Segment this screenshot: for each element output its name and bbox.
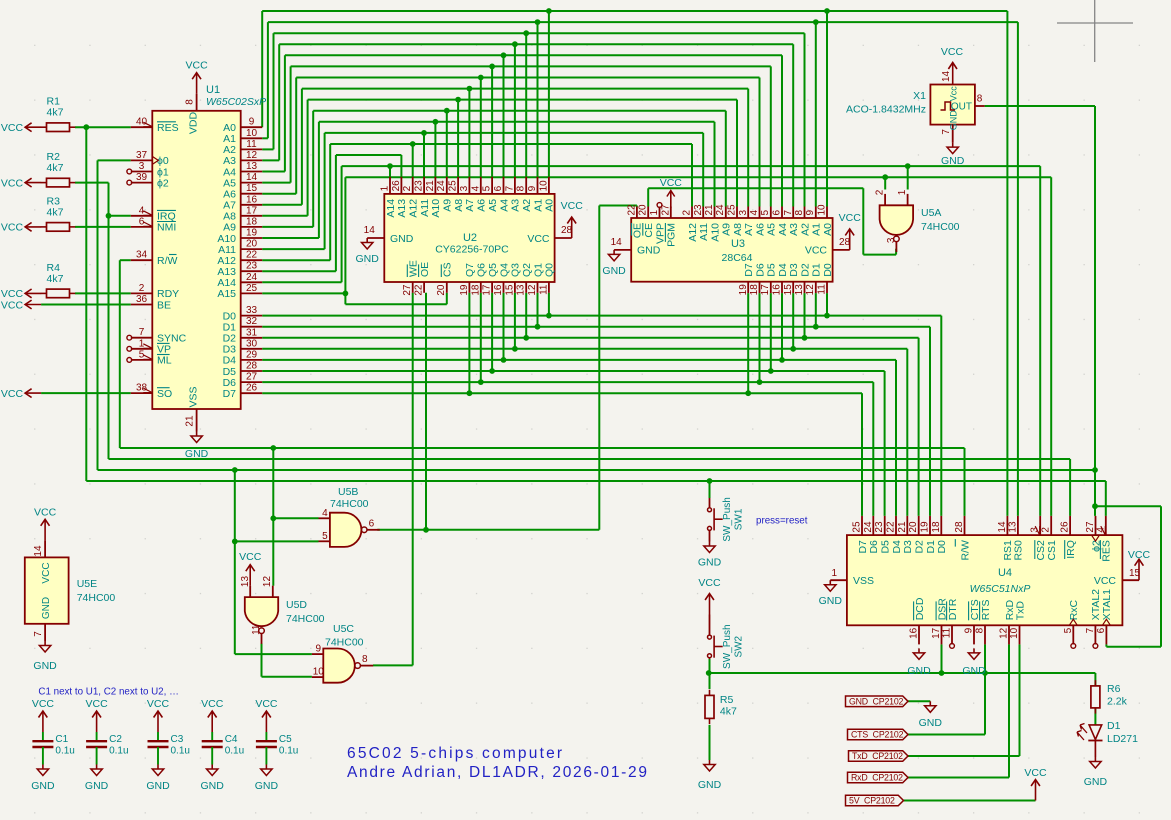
svg-text:VCC: VCC [1,222,24,234]
svg-text:GND: GND [33,660,57,672]
svg-text:4k7: 4k7 [47,206,64,218]
svg-text:GND: GND [962,665,986,677]
svg-text:Q3: Q3 [510,263,522,277]
svg-text:VCC: VCC [41,562,52,583]
svg-text:GND: GND [907,665,931,677]
svg-text:11: 11 [942,627,953,638]
svg-text:A13: A13 [396,199,408,218]
svg-text:GND: GND [919,717,943,729]
svg-text:NMI: NMI [157,222,176,234]
svg-text:22: 22 [626,204,637,216]
svg-text:GND: GND [255,780,279,792]
svg-text:20: 20 [908,521,919,533]
svg-text:press=reset: press=reset [756,516,808,527]
svg-text:33: 33 [246,305,258,316]
svg-text:17: 17 [482,284,493,296]
svg-text:9: 9 [249,117,255,128]
svg-text:8: 8 [516,185,527,191]
svg-text:VCC: VCC [1094,575,1117,587]
svg-text:23: 23 [414,180,425,192]
svg-text:ϕ2: ϕ2 [157,177,169,189]
svg-text:7: 7 [1085,627,1096,633]
svg-text:8: 8 [794,210,805,216]
svg-text:6: 6 [493,185,504,191]
svg-text:8: 8 [975,627,986,633]
svg-text:A5: A5 [487,199,499,212]
svg-text:4: 4 [470,185,481,191]
svg-text:D6: D6 [754,263,766,277]
svg-text:3: 3 [459,185,470,191]
svg-text:A12: A12 [687,223,699,242]
svg-text:29: 29 [246,349,258,360]
svg-text:CY62256-70PC: CY62256-70PC [435,244,509,256]
svg-text:11: 11 [538,284,549,295]
svg-text:17: 17 [246,205,258,216]
svg-text:0.1u: 0.1u [225,746,244,757]
svg-text:C2: C2 [109,734,122,745]
svg-text:VCC: VCC [1,177,24,189]
svg-text:D0: D0 [822,263,834,277]
svg-text:A12: A12 [408,199,420,218]
svg-text:U5B: U5B [338,486,358,498]
svg-text:2: 2 [1041,527,1052,533]
svg-text:12: 12 [246,150,258,161]
svg-text:D2: D2 [799,263,811,277]
svg-text:A7: A7 [743,223,755,236]
svg-text:GND: GND [637,245,661,257]
svg-text:19: 19 [246,228,258,239]
svg-text:Q6: Q6 [476,263,488,277]
svg-text:A8: A8 [732,223,744,236]
svg-text:2: 2 [875,189,886,195]
svg-text:13: 13 [246,161,258,172]
svg-text:10: 10 [817,204,828,216]
svg-text:1: 1 [831,568,837,579]
svg-text:4: 4 [322,508,328,519]
svg-text:RES: RES [1101,540,1113,562]
svg-text:A0: A0 [822,223,834,236]
svg-text:4: 4 [749,210,760,216]
svg-text:20: 20 [436,284,447,296]
svg-text:GND: GND [602,265,626,277]
svg-text:ACO-1.8432MHz: ACO-1.8432MHz [846,104,926,116]
svg-text:C1: C1 [55,734,68,745]
svg-text:Q4: Q4 [498,263,510,277]
svg-text:28C64: 28C64 [722,252,753,264]
svg-text:DTR: DTR [947,598,959,620]
svg-text:D1: D1 [925,540,937,554]
svg-text:U2: U2 [463,232,477,244]
svg-text:3: 3 [1030,527,1041,533]
svg-text:SW_Push: SW_Push [722,624,733,668]
svg-text:19: 19 [738,284,749,296]
svg-text:RxD_CP2102: RxD_CP2102 [851,773,903,783]
svg-text:VSS: VSS [188,386,200,407]
svg-text:VCC: VCC [527,233,550,245]
svg-text:A15: A15 [217,288,236,300]
svg-text:X1: X1 [913,90,926,102]
svg-text:SO: SO [157,388,172,400]
svg-text:31: 31 [246,327,258,338]
svg-text:U1: U1 [206,84,220,96]
svg-text:16: 16 [493,284,504,296]
svg-text:U3: U3 [731,238,745,250]
svg-text:1: 1 [649,210,660,216]
svg-text:14: 14 [364,225,376,236]
svg-text:VDD: VDD [188,111,200,134]
svg-text:VCC: VCC [239,551,262,563]
svg-text:4k7: 4k7 [47,273,64,285]
svg-text:13: 13 [794,284,805,296]
svg-text:18: 18 [246,216,258,227]
svg-text:18: 18 [749,284,760,296]
svg-text:A0: A0 [544,199,556,212]
svg-text:24: 24 [715,204,726,216]
svg-text:D1: D1 [1107,720,1121,732]
svg-text:A11: A11 [419,199,431,217]
svg-text:VCC: VCC [34,506,57,518]
svg-text:XTAL1: XTAL1 [1101,589,1113,620]
svg-text:D5: D5 [880,540,892,554]
svg-text:VCC: VCC [1,122,24,134]
svg-text:TxD_CP2102: TxD_CP2102 [852,751,903,761]
svg-text:16: 16 [246,194,258,205]
svg-text:6: 6 [1096,627,1107,633]
svg-text:GND: GND [41,597,52,619]
svg-text:VCC: VCC [941,46,964,58]
svg-text:14: 14 [246,172,258,183]
svg-text:Q5: Q5 [487,263,499,277]
svg-text:3: 3 [139,161,145,172]
svg-text:Vcc: Vcc [948,86,958,102]
svg-text:27: 27 [246,372,258,383]
svg-text:9: 9 [527,185,538,191]
svg-text:11: 11 [817,284,828,295]
svg-text:14: 14 [33,545,44,557]
svg-text:74HC00: 74HC00 [325,637,364,649]
svg-text:GND: GND [85,780,109,792]
svg-text:26: 26 [391,180,402,192]
svg-text:VCC: VCC [255,698,278,710]
svg-text:D4: D4 [777,263,789,277]
svg-text:SW1: SW1 [734,508,745,530]
svg-text:CE: CE [643,223,655,238]
svg-text:D7: D7 [857,540,869,554]
svg-text:26: 26 [1060,521,1071,533]
svg-text:A2: A2 [521,199,533,212]
svg-text:27: 27 [402,284,413,296]
svg-text:Q0: Q0 [544,263,556,277]
svg-text:22: 22 [246,250,258,261]
svg-text:D5: D5 [766,263,778,277]
svg-text:32: 32 [246,316,258,327]
svg-text:12: 12 [262,576,273,588]
svg-text:38: 38 [136,383,148,394]
svg-text:9: 9 [805,210,816,216]
svg-text:U4: U4 [998,567,1012,579]
svg-text:3: 3 [738,210,749,216]
svg-text:GND: GND [201,780,225,792]
svg-text:2: 2 [402,185,413,191]
svg-text:VCC: VCC [805,245,828,257]
svg-text:A3: A3 [510,199,522,212]
svg-text:5: 5 [1063,627,1074,633]
svg-text:36: 36 [136,294,148,305]
svg-text:OE: OE [419,262,431,277]
svg-text:8: 8 [185,99,196,105]
svg-text:3: 3 [886,237,897,243]
svg-text:A10: A10 [709,223,721,242]
svg-text:25: 25 [852,521,863,533]
svg-text:A8: A8 [453,199,465,212]
svg-text:A10: A10 [430,199,442,218]
svg-text:D2: D2 [914,540,926,554]
svg-text:VCC: VCC [1024,767,1047,779]
svg-text:23: 23 [246,261,258,272]
svg-text:6: 6 [369,518,375,529]
svg-text:R/W: R/W [959,540,971,561]
svg-text:28: 28 [561,225,573,236]
svg-text:WE: WE [408,260,420,277]
svg-text:24: 24 [863,521,874,533]
svg-text:19: 19 [459,284,470,296]
svg-text:U5D: U5D [286,599,307,611]
svg-text:C1 next to U1, C2 next to U2,: C1 next to U1, C2 next to U2, … [38,687,179,698]
svg-text:Q2: Q2 [521,263,533,277]
svg-text:A14: A14 [385,199,397,218]
svg-text:DCD: DCD [914,597,926,620]
svg-text:GND: GND [941,155,965,167]
svg-text:C3: C3 [171,734,184,745]
svg-text:7: 7 [33,631,44,637]
svg-text:D7: D7 [223,388,237,400]
svg-text:R/W: R/W [157,255,178,267]
svg-text:37: 37 [136,150,148,161]
svg-text:ML: ML [157,355,172,367]
svg-text:5: 5 [760,210,771,216]
svg-text:D0: D0 [936,540,948,554]
svg-text:16: 16 [772,284,783,296]
svg-text:65C02 5-chips computer: 65C02 5-chips computer [347,745,564,762]
svg-text:13: 13 [240,576,251,588]
svg-text:A9: A9 [721,223,733,236]
svg-text:GND: GND [948,110,958,131]
svg-text:7: 7 [504,185,515,191]
svg-text:0.1u: 0.1u [171,746,190,757]
svg-text:VCC: VCC [1128,549,1151,561]
svg-text:R5: R5 [720,694,734,706]
svg-text:28: 28 [954,521,965,533]
svg-text:VCC: VCC [201,698,224,710]
svg-text:28: 28 [839,237,851,248]
svg-text:VCC: VCC [698,577,721,589]
svg-text:21: 21 [425,180,436,192]
svg-text:VCC: VCC [839,212,862,224]
svg-text:Andre Adrian, DL1ADR, 2026-01-: Andre Adrian, DL1ADR, 2026-01-29 [347,764,649,781]
svg-text:2: 2 [139,283,145,294]
svg-text:17: 17 [760,284,771,296]
svg-text:D3: D3 [902,540,914,554]
svg-text:C5: C5 [279,734,292,745]
svg-text:23: 23 [874,521,885,533]
svg-text:14: 14 [611,237,623,248]
svg-text:BE: BE [157,299,171,311]
svg-text:8: 8 [977,94,983,105]
svg-text:5: 5 [322,531,328,542]
svg-text:VCC: VCC [186,60,209,72]
svg-text:A1: A1 [811,223,823,236]
svg-text:R6: R6 [1107,683,1121,695]
svg-text:4k7: 4k7 [47,162,64,174]
svg-text:7: 7 [139,327,145,338]
svg-text:7: 7 [783,210,794,216]
svg-text:16: 16 [909,627,920,639]
svg-text:D3: D3 [788,263,800,277]
svg-text:74HC00: 74HC00 [77,592,116,604]
svg-text:TxD: TxD [1014,601,1026,621]
svg-text:15: 15 [783,284,794,296]
svg-text:9: 9 [316,644,322,655]
svg-text:20: 20 [246,239,258,250]
svg-text:SW_Push: SW_Push [722,497,733,541]
svg-text:RTS: RTS [980,599,992,620]
svg-text:21: 21 [185,415,196,427]
svg-text:17: 17 [931,627,942,639]
svg-text:RxC: RxC [1068,599,1080,620]
svg-text:A6: A6 [476,199,488,212]
svg-text:C4: C4 [225,734,238,745]
svg-text:OE: OE [632,223,644,238]
svg-text:25: 25 [246,283,258,294]
svg-text:28: 28 [246,361,258,372]
svg-text:15: 15 [246,183,258,194]
svg-text:D7: D7 [743,263,755,277]
svg-text:VPP: VPP [654,223,666,244]
svg-text:22: 22 [886,521,897,533]
svg-text:2.2k: 2.2k [1107,696,1128,708]
svg-text:A6: A6 [754,223,766,236]
svg-text:10: 10 [313,667,325,678]
svg-text:A2: A2 [799,223,811,236]
svg-text:VCC: VCC [660,177,683,189]
svg-text:U5C: U5C [333,623,354,635]
svg-text:22: 22 [414,284,425,296]
svg-text:5V_CP2102: 5V_CP2102 [849,796,895,806]
svg-text:0.1u: 0.1u [109,746,128,757]
svg-text:CTS_CP2102: CTS_CP2102 [851,730,904,740]
svg-text:Q1: Q1 [532,263,544,277]
svg-text:1: 1 [897,189,908,195]
svg-text:CS: CS [442,262,454,277]
svg-text:30: 30 [246,338,258,349]
svg-text:15: 15 [504,284,515,296]
svg-text:GND: GND [356,253,380,265]
svg-text:8: 8 [362,654,368,665]
svg-text:24: 24 [246,272,258,283]
svg-text:39: 39 [136,172,148,183]
svg-text:4k7: 4k7 [720,706,737,718]
svg-text:VCC: VCC [32,698,55,710]
svg-text:IRQ: IRQ [1065,540,1077,559]
svg-text:VSS: VSS [853,575,874,587]
svg-text:0.1u: 0.1u [55,746,74,757]
svg-text:GND: GND [146,780,170,792]
svg-text:10: 10 [538,180,549,192]
svg-text:21: 21 [897,521,908,533]
svg-text:4: 4 [1095,527,1106,533]
svg-text:VCC: VCC [1,299,24,311]
svg-text:23: 23 [693,204,704,216]
svg-text:6: 6 [772,210,783,216]
svg-text:PGM: PGM [666,223,678,247]
svg-text:18: 18 [931,521,942,533]
svg-text:RES: RES [157,122,179,134]
svg-text:5: 5 [482,185,493,191]
svg-text:W65C02SxP: W65C02SxP [206,96,266,108]
svg-text:GND: GND [1084,776,1108,788]
svg-text:A7: A7 [464,199,476,212]
svg-text:GND: GND [185,448,209,460]
svg-text:GND: GND [390,233,414,245]
svg-text:14: 14 [997,521,1008,533]
svg-text:19: 19 [920,521,931,533]
svg-text:2: 2 [682,210,693,216]
svg-text:18: 18 [470,284,481,296]
svg-text:14: 14 [941,70,952,82]
svg-text:10: 10 [1009,627,1020,639]
svg-text:10: 10 [246,128,258,139]
svg-text:GND: GND [698,557,722,569]
svg-text:A5: A5 [766,223,778,236]
svg-text:74HC00: 74HC00 [921,221,960,233]
svg-text:34: 34 [136,250,148,261]
svg-text:GND: GND [819,595,843,607]
svg-text:9: 9 [964,627,975,633]
svg-text:13: 13 [516,284,527,296]
svg-text:4k7: 4k7 [47,107,64,119]
svg-text:25: 25 [448,180,459,192]
svg-text:U5A: U5A [921,207,941,219]
svg-text:74HC00: 74HC00 [286,613,325,625]
svg-text:LD271: LD271 [1107,733,1138,745]
svg-text:VCC: VCC [86,698,109,710]
svg-text:D6: D6 [868,540,880,554]
svg-text:11: 11 [246,139,257,150]
svg-text:12: 12 [805,284,816,296]
svg-text:GND: GND [698,779,722,791]
svg-text:Q7: Q7 [464,263,476,277]
svg-text:VCC: VCC [561,200,584,212]
svg-text:13: 13 [1007,521,1018,533]
svg-text:A1: A1 [532,199,544,212]
svg-text:25: 25 [727,204,738,216]
svg-text:12: 12 [527,284,538,296]
svg-text:26: 26 [246,383,258,394]
svg-text:20: 20 [638,204,649,216]
svg-text:A4: A4 [777,223,789,236]
svg-text:RS0: RS0 [1013,540,1025,561]
svg-text:W65C51NxP: W65C51NxP [970,583,1031,595]
svg-text:74HC00: 74HC00 [330,498,369,510]
svg-text:A11: A11 [698,223,710,241]
svg-text:A3: A3 [788,223,800,236]
svg-text:VCC: VCC [1,388,24,400]
svg-text:40: 40 [136,117,148,128]
svg-text:21: 21 [704,204,715,216]
svg-text:0.1u: 0.1u [279,746,298,757]
svg-text:1: 1 [380,185,391,191]
svg-text:D4: D4 [891,540,903,554]
